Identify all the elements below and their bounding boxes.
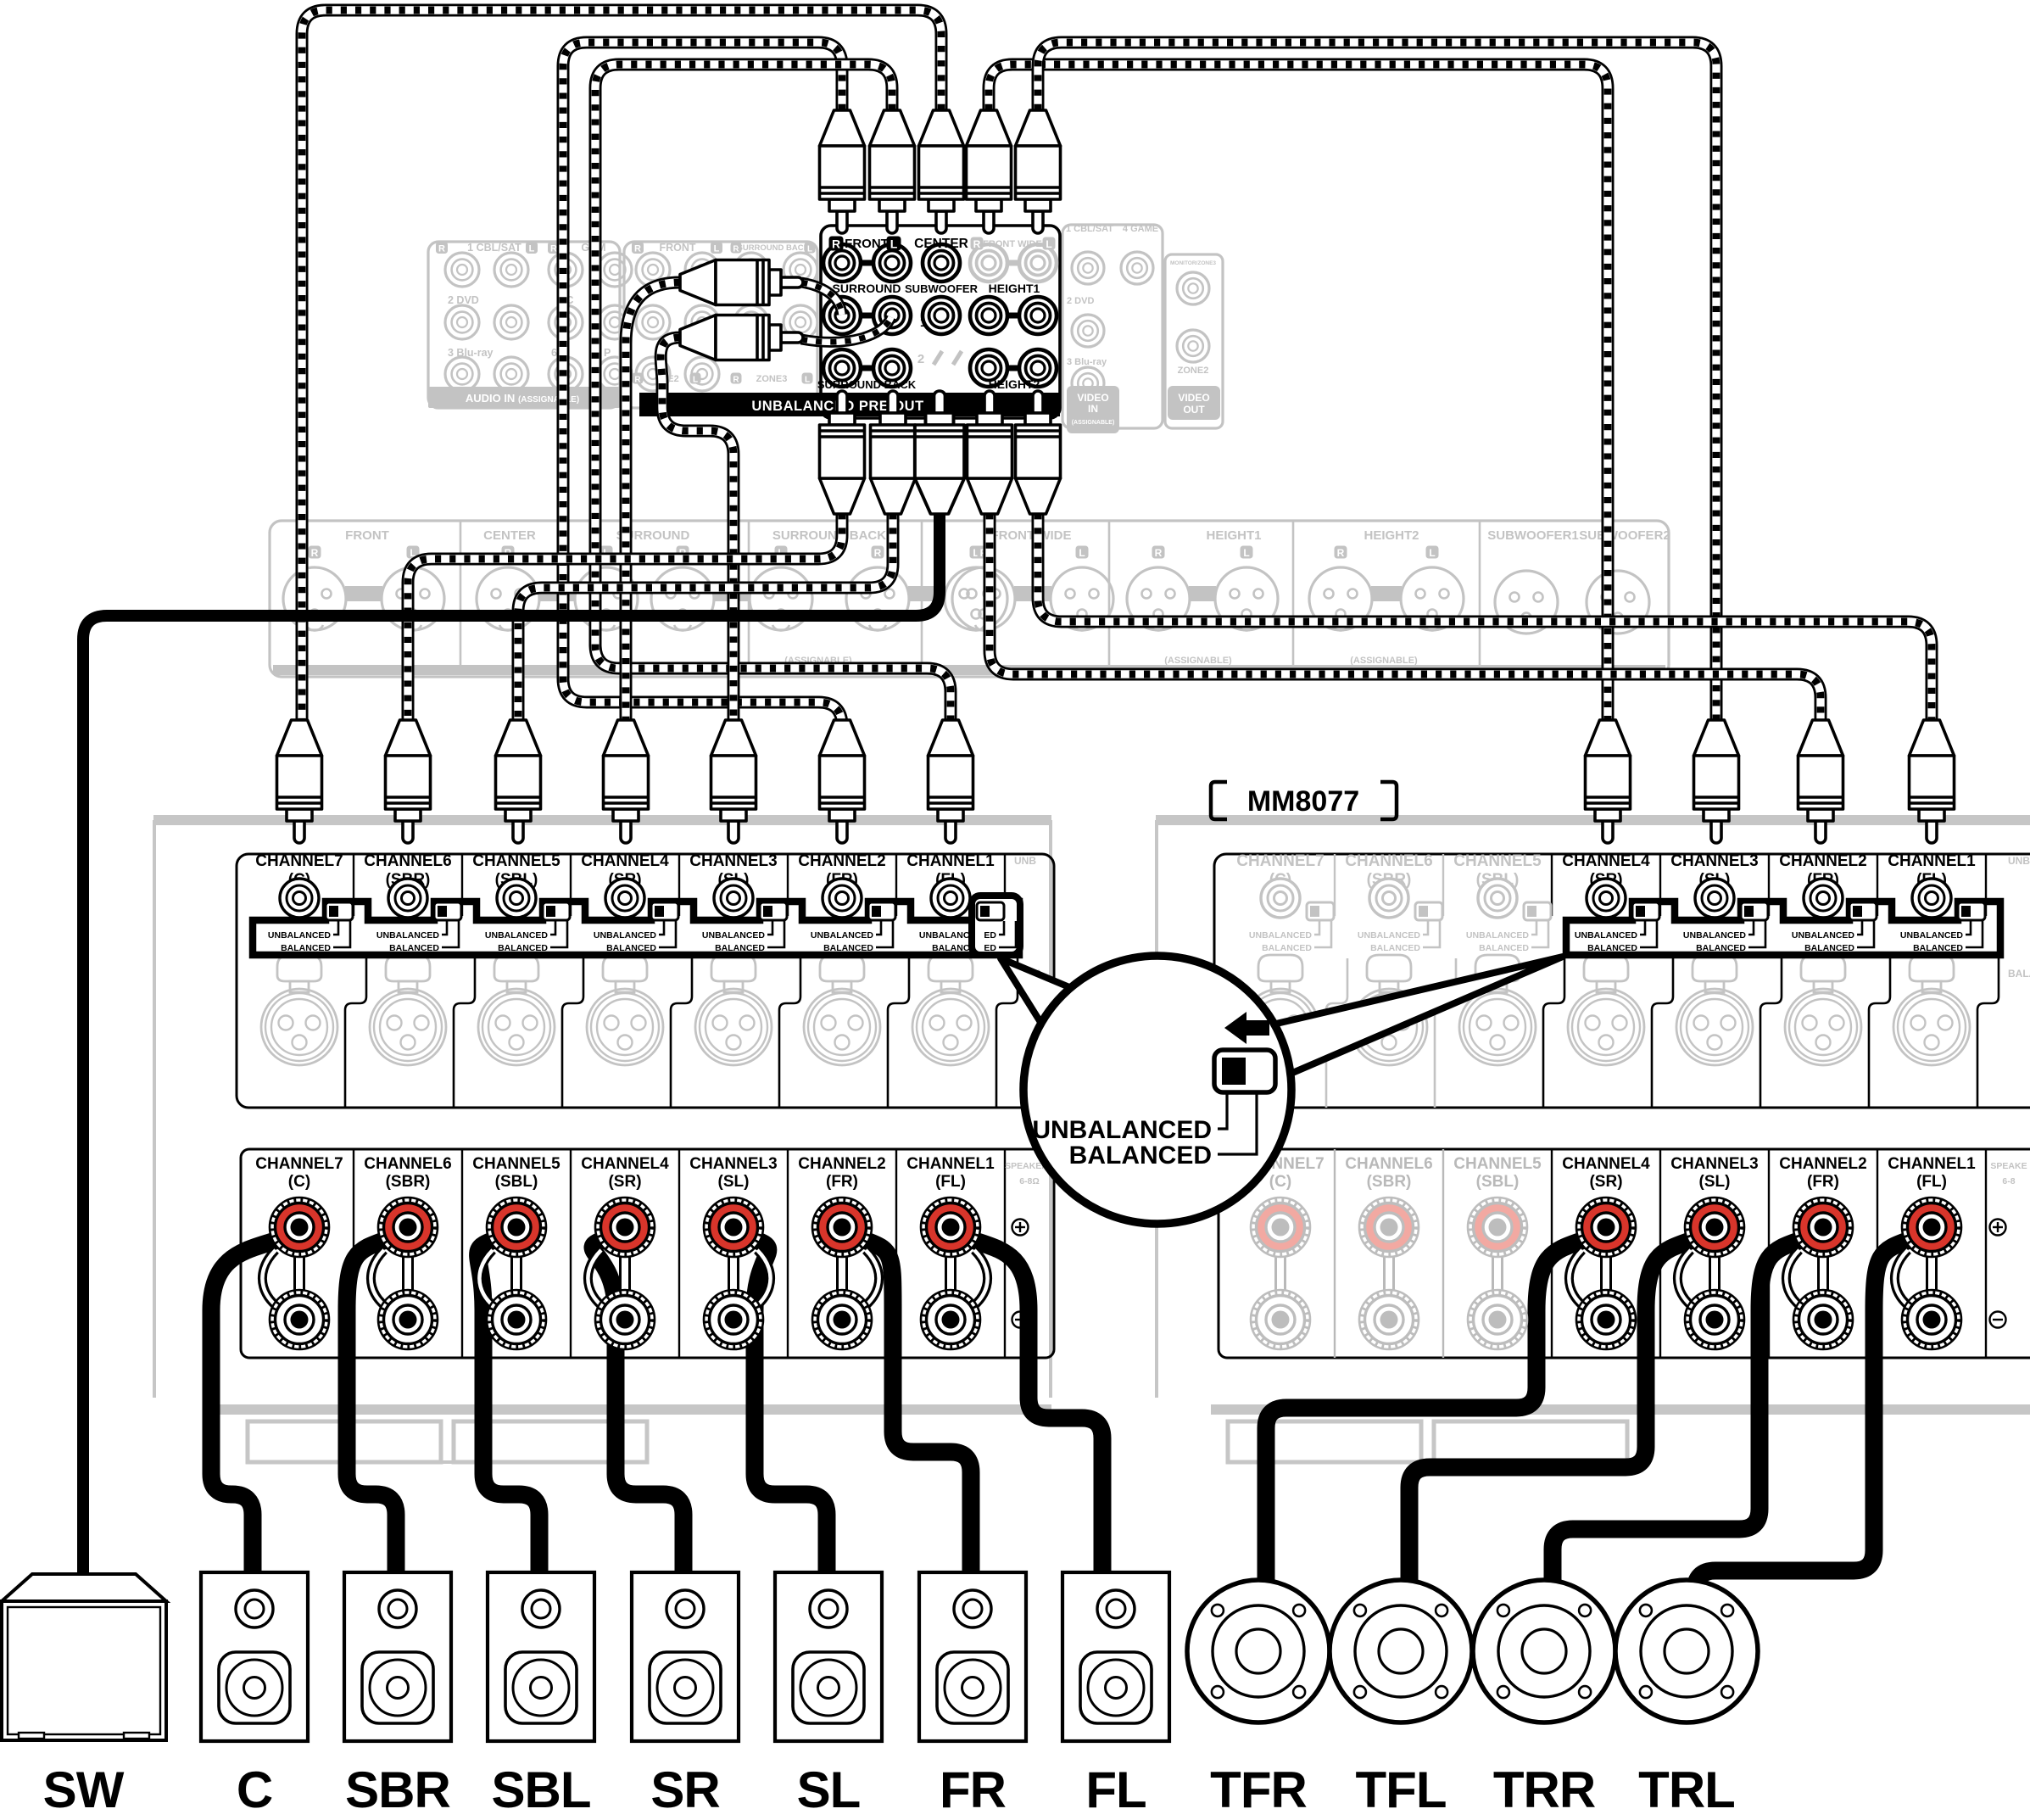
- RCA plug into left amp CH1: [929, 720, 973, 843]
- svg-text:R: R: [973, 238, 981, 250]
- svg-text:(SBR): (SBR): [386, 1173, 431, 1191]
- right amp (MM8077) input box: [1214, 854, 2030, 1108]
- amp input cell CHANNEL5 (SBL): [1453, 852, 1548, 1065]
- svg-text:UNBALANCED: UNBALANCED: [702, 930, 765, 941]
- svg-text:UNBALANCED: UNBALANCED: [1249, 930, 1312, 941]
- input select switch: [1741, 902, 1768, 920]
- svg-text:L: L: [805, 375, 810, 384]
- speaker terminal cell CHANNEL5 (SBL): [472, 1155, 560, 1349]
- svg-text:CHANNEL3: CHANNEL3: [1670, 852, 1758, 870]
- svg-text:TRR: TRR: [1493, 1761, 1596, 1818]
- amp input cell CHANNEL6 (SBR): [364, 852, 459, 1065]
- receiver right input panel (greyed): [1062, 225, 1163, 428]
- svg-text:6-8Ω: 6-8Ω: [1019, 1176, 1040, 1186]
- svg-text:CHANNEL2: CHANNEL2: [1779, 852, 1866, 870]
- RCA plug into left amp CH4: [604, 720, 649, 843]
- unbalanced selection bracket left amp: [253, 902, 1019, 955]
- right amp speaker terminal box: [1219, 1149, 2030, 1358]
- svg-text:FRONT WIDE: FRONT WIDE: [991, 528, 1072, 543]
- svg-text:L: L: [529, 244, 535, 254]
- svg-text:2 DVD: 2 DVD: [1067, 296, 1094, 306]
- svg-text:CHANNEL1: CHANNEL1: [906, 852, 995, 870]
- svg-text:CHANNEL7: CHANNEL7: [255, 1155, 343, 1173]
- svg-text:4 GAME: 4 GAME: [1123, 224, 1158, 234]
- svg-text:L: L: [1079, 547, 1085, 559]
- cable SURROUND R to left amp CH4: [626, 282, 680, 746]
- RCA plug SURROUND L (sideways): [680, 315, 803, 360]
- speaker terminal cell CHANNEL1 (FL): [1888, 1155, 1976, 1349]
- PRE OUT SURROUND R/L jacks: [823, 297, 861, 334]
- left amp (MM8077) input box: [237, 854, 1054, 1108]
- svg-text:1: 1: [920, 315, 927, 330]
- RCA plug into PRE OUT HEIGHT1 L: [1016, 110, 1061, 233]
- speaker wire SBL: [478, 1240, 539, 1577]
- svg-text:UNBALANCED: UNBALANCED: [1683, 930, 1746, 941]
- amp input cell CHANNEL2 (FR): [1779, 852, 1874, 1065]
- svg-text:L: L: [807, 244, 812, 254]
- svg-text:SBR: SBR: [345, 1761, 450, 1818]
- svg-text:UNBALANCED: UNBALANCED: [485, 930, 548, 941]
- svg-text:BALANCED: BALANCED: [1370, 943, 1420, 953]
- svg-text:CHANNEL7: CHANNEL7: [255, 852, 343, 870]
- speaker SR: [632, 1572, 739, 1741]
- svg-text:TFL: TFL: [1356, 1761, 1447, 1818]
- svg-text:UNBALANCED: UNBALANCED: [1575, 930, 1637, 941]
- input select switch: [977, 902, 1004, 920]
- RCA plug into PRE OUT HEIGHT1 R: [967, 110, 1012, 233]
- svg-text:FRONT: FRONT: [659, 242, 695, 254]
- input select switch: [651, 902, 678, 920]
- input select switch: [543, 902, 570, 920]
- svg-text:ZONE3: ZONE3: [756, 374, 788, 384]
- cable FRONT R to left amp CH2: [563, 42, 842, 746]
- svg-text:(SBR): (SBR): [1367, 1173, 1412, 1191]
- svg-text:3 Blu-ray: 3 Blu-ray: [1067, 357, 1107, 367]
- amp input cell CHANNEL3 (SL): [689, 852, 784, 1065]
- svg-text:R: R: [1155, 547, 1163, 559]
- svg-text:CHANNEL3: CHANNEL3: [1670, 1155, 1758, 1173]
- svg-text:(FR): (FR): [826, 1173, 858, 1191]
- svg-text:(ASSIGNABLE): (ASSIGNABLE): [1164, 656, 1232, 666]
- svg-text:3 Blu-ray: 3 Blu-ray: [448, 347, 494, 359]
- svg-text:MM8077: MM8077: [1247, 785, 1359, 818]
- svg-text:CHANNEL6: CHANNEL6: [1345, 852, 1432, 870]
- svg-text:CHANNEL6: CHANNEL6: [364, 1155, 451, 1173]
- PRE OUT SURROUND BACK R/L jacks: [823, 349, 861, 387]
- svg-text:CHANNEL4: CHANNEL4: [1562, 852, 1650, 870]
- left amp chassis (greyed): [153, 815, 1051, 825]
- input select switch: [1849, 902, 1877, 920]
- svg-text:BALA: BALA: [2008, 968, 2030, 980]
- svg-text:CHANNEL2: CHANNEL2: [1779, 1155, 1866, 1173]
- svg-text:UNB: UNB: [1014, 855, 1036, 867]
- speaker SBR: [344, 1572, 451, 1741]
- svg-text:OUT: OUT: [1183, 404, 1205, 416]
- cable SURROUND L to left amp CH3: [661, 338, 733, 746]
- speaker SBL: [488, 1572, 594, 1741]
- svg-text:UNBALANCED: UNBALANCED: [268, 930, 331, 941]
- speaker wire C: [211, 1240, 277, 1577]
- FRONT WIDE jacks (greyed): [970, 244, 1007, 282]
- svg-text:SUBWOOFER2: SUBWOOFER2: [1579, 528, 1670, 543]
- cable HEIGHT2 L to right amp CH1: [1038, 499, 1932, 746]
- amp input cell CHANNEL5 (SBL): [472, 852, 567, 1065]
- svg-text:CENTER: CENTER: [483, 528, 536, 543]
- svg-text:CHANNEL5: CHANNEL5: [1453, 852, 1542, 870]
- speaker terminal cell CHANNEL4 (SR): [581, 1155, 669, 1349]
- svg-text:TRL: TRL: [1638, 1761, 1735, 1818]
- svg-text:(SR): (SR): [1589, 1173, 1622, 1191]
- speaker terminal cell CHANNEL4 (SR): [1562, 1155, 1650, 1349]
- PRE OUT SUBWOOFER jack: [923, 297, 960, 334]
- svg-text:SUBWOOFER: SUBWOOFER: [905, 282, 979, 295]
- svg-text:UNBALANCED: UNBALANCED: [1032, 1116, 1212, 1144]
- svg-text:CHANNEL4: CHANNEL4: [581, 1155, 669, 1173]
- amp input cell CHANNEL2 (FR): [798, 852, 893, 1065]
- PRE OUT CENTER jack: [923, 244, 960, 282]
- svg-text:FL: FL: [1085, 1761, 1146, 1818]
- svg-text:(SL): (SL): [1699, 1173, 1731, 1191]
- svg-text:FRONT: FRONT: [845, 237, 889, 251]
- svg-text:R: R: [874, 547, 882, 559]
- RCA plug into PRE OUT SUBWOOFER (solid cable): [915, 391, 964, 514]
- RCA plug into left amp CH3: [711, 720, 756, 843]
- subwoofer pre-out solid cable to SW: [83, 448, 940, 1586]
- speaker terminal cell CHANNEL3 (SL): [1670, 1155, 1758, 1349]
- svg-text:BALANCED: BALANCED: [1262, 943, 1312, 953]
- input select switch: [868, 902, 895, 920]
- speaker wire TFL: [1409, 1240, 1693, 1594]
- RCA plug into right amp CH4: [1586, 720, 1631, 843]
- speaker terminal cell CHANNEL7 (C): [1236, 1155, 1324, 1349]
- svg-text:BALANCED: BALANCED: [1069, 1142, 1212, 1170]
- cable CENTER to left amp CH7: [302, 10, 941, 746]
- svg-text:CHANNEL6: CHANNEL6: [1345, 1155, 1432, 1173]
- cable FRONT L to left amp CH1: [595, 64, 951, 746]
- RCA plug into right amp CH2: [1799, 720, 1843, 843]
- speaker C: [201, 1572, 308, 1741]
- arrow: [1224, 1012, 1269, 1044]
- svg-text:R: R: [311, 547, 319, 559]
- svg-text:CHANNEL1: CHANNEL1: [1888, 852, 1976, 870]
- svg-text:SPEAKE: SPEAKE: [1990, 1161, 2027, 1171]
- svg-text:C: C: [237, 1761, 272, 1818]
- speaker terminal cell CHANNEL6 (SBR): [1345, 1155, 1432, 1349]
- speaker TRR: [1473, 1580, 1615, 1722]
- svg-text:(ASSIGNABLE): (ASSIGNABLE): [1350, 656, 1418, 666]
- RCA plug into left amp CH2: [820, 720, 865, 843]
- svg-text:IN: IN: [1088, 403, 1098, 415]
- receiver AUDIO IN panel (greyed): [428, 242, 620, 408]
- svg-text:CHANNEL3: CHANNEL3: [689, 852, 777, 870]
- RCA plug into right amp CH3: [1694, 720, 1739, 843]
- svg-text:HEIGHT1: HEIGHT1: [1206, 528, 1261, 543]
- input select switch: [977, 902, 1004, 920]
- speaker terminal cell CHANNEL1 (FL): [906, 1155, 995, 1349]
- svg-text:(SR): (SR): [608, 1173, 641, 1191]
- input select switch: [1958, 902, 1985, 920]
- speaker terminal cell CHANNEL3 (SL): [689, 1155, 777, 1349]
- RCA plug into left amp CH5: [496, 720, 541, 843]
- speaker wire SBR: [347, 1240, 396, 1577]
- svg-text:(ASSIGNABLE): (ASSIGNABLE): [1072, 420, 1115, 426]
- highlight frame on CH1 switch: [972, 896, 1020, 955]
- receiver pre-out panel (greyed): [624, 242, 817, 408]
- svg-text:UNBALANCED: UNBALANCED: [811, 930, 873, 941]
- svg-text:UNBALANCED: UNBALANCED: [1792, 930, 1854, 941]
- svg-text:(FR): (FR): [1807, 1173, 1839, 1191]
- svg-text:R: R: [634, 244, 641, 254]
- speaker FR: [919, 1572, 1026, 1741]
- svg-text:HEIGHT2: HEIGHT2: [989, 377, 1040, 391]
- svg-text:UNBALANCED: UNBALANCED: [594, 930, 656, 941]
- RCA plug into PRE OUT CENTER: [919, 110, 964, 233]
- speaker TFR: [1187, 1580, 1330, 1722]
- svg-text:UNBALANCED: UNBALANCED: [1466, 930, 1529, 941]
- speaker wire TRL: [1695, 1240, 1910, 1594]
- speaker wire FR: [864, 1240, 971, 1577]
- svg-text:R: R: [733, 375, 739, 384]
- svg-text:SBL: SBL: [492, 1761, 591, 1818]
- speaker wire SL: [755, 1240, 827, 1577]
- speaker FL: [1062, 1572, 1169, 1741]
- svg-text:CHANNEL5: CHANNEL5: [472, 1155, 560, 1173]
- svg-text:L: L: [890, 237, 898, 251]
- cable HEIGHT1 R to right amp CH4: [989, 64, 1608, 746]
- amp input cell CHANNEL4 (SR): [1562, 852, 1657, 1065]
- input select switch: [1415, 902, 1442, 920]
- svg-text:CHANNEL1: CHANNEL1: [1888, 1155, 1976, 1173]
- svg-text:(C): (C): [1269, 1173, 1291, 1191]
- svg-text:FR: FR: [940, 1761, 1007, 1818]
- svg-text:ED: ED: [984, 930, 996, 941]
- speaker terminal cell CHANNEL7 (C): [255, 1155, 343, 1349]
- RCA plug into PRE OUT FRONT L: [870, 110, 915, 233]
- cable SURROUND BACK L to left amp CH5: [518, 499, 893, 746]
- svg-text:SUBWOOFER1: SUBWOOFER1: [1487, 528, 1579, 543]
- svg-text:CHANNEL3: CHANNEL3: [689, 1155, 777, 1173]
- input select switch: [1632, 902, 1659, 920]
- speaker terminal cell CHANNEL2 (FR): [798, 1155, 885, 1349]
- svg-text:CENTER: CENTER: [914, 237, 968, 251]
- RCA plug into PRE OUT FRONT R: [820, 110, 865, 233]
- speaker terminal cell CHANNEL6 (SBR): [364, 1155, 451, 1349]
- svg-text:BALANCED: BALANCED: [1479, 943, 1529, 953]
- amp input cell CHANNEL1 (FL): [1888, 852, 1983, 1065]
- speaker wire TRR: [1553, 1240, 1801, 1594]
- speaker TRL: [1615, 1580, 1758, 1722]
- svg-text:VIDEO: VIDEO: [1178, 392, 1209, 404]
- svg-text:HEIGHT2: HEIGHT2: [1364, 528, 1419, 543]
- speaker wire SR: [593, 1240, 683, 1577]
- svg-text:R: R: [832, 237, 840, 251]
- input select switch: [326, 902, 353, 920]
- svg-text:CHANNEL1: CHANNEL1: [906, 1155, 995, 1173]
- svg-text:MONITOR/ZONE3: MONITOR/ZONE3: [1170, 260, 1216, 266]
- speaker wire FL: [973, 1240, 1102, 1577]
- magnifier circle: [1023, 956, 1291, 1224]
- svg-text:UNB: UNB: [2008, 855, 2030, 867]
- MM8077 label: [1211, 782, 1397, 819]
- svg-text:2 DVD: 2 DVD: [448, 294, 479, 306]
- svg-text:1 CBL/SAT: 1 CBL/SAT: [1066, 224, 1113, 234]
- svg-text:1 CBL/SAT: 1 CBL/SAT: [467, 242, 521, 254]
- svg-text:L: L: [1046, 238, 1051, 250]
- input select switch: [760, 902, 787, 920]
- RCA plug into PRE OUT HEIGHT2 R: [968, 391, 1012, 514]
- svg-text:CHANNEL5: CHANNEL5: [472, 852, 560, 870]
- input select switch: [1307, 902, 1334, 920]
- PRE OUT HEIGHT1 R/L jacks: [970, 297, 1007, 334]
- left amp speaker terminal box: [241, 1149, 1054, 1358]
- svg-text:CHANNEL4: CHANNEL4: [581, 852, 669, 870]
- amp input cell CHANNEL4 (SR): [581, 852, 676, 1065]
- svg-text:(SL): (SL): [718, 1173, 750, 1191]
- PRE OUT FRONT R jack: [823, 244, 861, 282]
- svg-text:R: R: [550, 244, 557, 254]
- svg-text:VIDEO: VIDEO: [1077, 392, 1108, 404]
- svg-text:L: L: [1429, 547, 1435, 559]
- speaker wire TFR: [1266, 1240, 1584, 1594]
- svg-text:ED: ED: [984, 943, 996, 953]
- PRE OUT FRONT L jack: [873, 244, 911, 282]
- RCA plug into left amp CH6: [386, 720, 431, 843]
- right amp chassis (greyed): [1156, 815, 2030, 825]
- svg-text:CHANNEL5: CHANNEL5: [1453, 1155, 1542, 1173]
- svg-text:HEIGHT1: HEIGHT1: [989, 282, 1040, 295]
- svg-text:R: R: [1337, 547, 1345, 559]
- magnified switch: [1214, 1050, 1275, 1092]
- svg-text:(SBL): (SBL): [495, 1173, 538, 1191]
- svg-text:TFR: TFR: [1210, 1761, 1307, 1818]
- polarity marks: [1012, 1220, 1029, 1236]
- svg-text:L: L: [714, 244, 720, 254]
- svg-text:SURROUND: SURROUND: [833, 282, 901, 295]
- PRE OUT panel: [821, 226, 1060, 418]
- input select switch: [1524, 902, 1551, 920]
- svg-text:FRONT WIDE: FRONT WIDE: [983, 239, 1042, 249]
- svg-text:UNBALANCED: UNBALANCED: [1900, 930, 1963, 941]
- subwoofer SW: [2, 1574, 166, 1740]
- svg-text:L: L: [1243, 547, 1249, 559]
- svg-text:2: 2: [917, 352, 924, 366]
- cable HEIGHT1 L to right amp CH3: [1038, 42, 1716, 746]
- svg-text:CHANNEL6: CHANNEL6: [364, 852, 451, 870]
- speaker terminal cell CHANNEL5 (SBL): [1453, 1155, 1542, 1349]
- amp input cell CHANNEL3 (SL): [1670, 852, 1765, 1065]
- RCA plug into right amp CH1: [1910, 720, 1955, 843]
- cable HEIGHT2 R to right amp CH2: [990, 499, 1821, 746]
- svg-text:CHANNEL7: CHANNEL7: [1236, 852, 1324, 870]
- svg-text:ZONE2: ZONE2: [1178, 366, 1209, 376]
- svg-text:FRONT: FRONT: [345, 528, 389, 543]
- RCA plug SURROUND R (sideways): [680, 260, 803, 305]
- svg-text:(SBL): (SBL): [1476, 1173, 1520, 1191]
- svg-text:UNBALANCED: UNBALANCED: [376, 930, 439, 941]
- unbalanced selection bracket right amp: [1566, 902, 2000, 955]
- speaker SL: [775, 1572, 882, 1741]
- svg-text:(FL): (FL): [1916, 1173, 1947, 1191]
- magnifier pointer wedges: [1001, 958, 1085, 1040]
- amp input cell CHANNEL7 (C): [255, 852, 350, 1065]
- svg-text:SW: SW: [43, 1761, 125, 1818]
- svg-text:6-8: 6-8: [2002, 1176, 2015, 1186]
- svg-text:CHANNEL4: CHANNEL4: [1562, 1155, 1650, 1173]
- svg-text:SURROUND BACK: SURROUND BACK: [738, 243, 810, 253]
- RCA plug into PRE OUT SURROUND BACK L: [871, 391, 916, 514]
- RCA plug into PRE OUT HEIGHT2 L: [1016, 391, 1061, 514]
- amp input cell CHANNEL6 (SBR): [1345, 852, 1440, 1065]
- amp input cell CHANNEL7 (C): [1236, 852, 1331, 1065]
- svg-text:SL: SL: [797, 1761, 861, 1818]
- speaker terminal cell CHANNEL2 (FR): [1779, 1155, 1866, 1349]
- RCA plug into left amp CH7: [277, 720, 322, 843]
- svg-text:(FL): (FL): [935, 1173, 966, 1191]
- svg-text:SURROUND BACK: SURROUND BACK: [772, 528, 886, 543]
- svg-text:(C): (C): [288, 1173, 310, 1191]
- amp input cell CHANNEL1 (FL): [906, 852, 1001, 1065]
- svg-text:UNBALANCED: UNBALANCED: [1358, 930, 1420, 941]
- svg-text:CHANNEL2: CHANNEL2: [798, 852, 885, 870]
- svg-text:L: L: [693, 375, 698, 384]
- input select switch: [434, 902, 461, 920]
- cable SURROUND BACK R to left amp CH6: [408, 499, 842, 746]
- svg-text:R: R: [634, 375, 641, 384]
- PRE OUT HEIGHT2 R/L jacks: [970, 349, 1007, 387]
- svg-text:R: R: [438, 244, 445, 254]
- svg-text:SR: SR: [650, 1761, 720, 1818]
- svg-text:CHANNEL2: CHANNEL2: [798, 1155, 885, 1173]
- receiver balanced XLR pre-out panel (greyed): [270, 521, 1669, 677]
- RCA plug into PRE OUT SURROUND BACK R: [820, 391, 865, 514]
- svg-text:SURROUND BACK: SURROUND BACK: [817, 378, 917, 391]
- speaker TFL: [1330, 1580, 1472, 1722]
